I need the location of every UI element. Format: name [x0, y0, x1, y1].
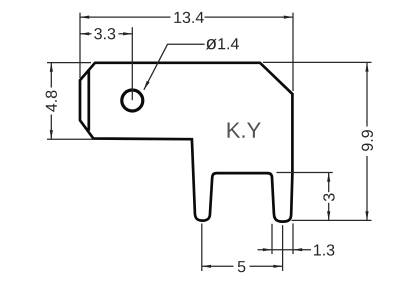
dimension 1.3 (prong width): [258, 223, 335, 255]
dimension 3 (slot depth): [277, 173, 335, 221]
dimension 4.8 (left height): [46, 63, 93, 140]
leader with label ø1.4: [144, 38, 239, 90]
dimension 5 (prong spacing): [202, 224, 283, 273]
part outline: spade terminal profile: [80, 63, 292, 222]
dimension 3.3 (hole position): [80, 27, 132, 100]
dimension 13.4 (top overall width): [80, 12, 293, 91]
dimension 9.9 (right overall height): [263, 62, 373, 220]
label K.Y: [228, 123, 261, 138]
bend line at left end: [87, 70, 90, 130]
hole circle ø1.4: [122, 90, 143, 111]
